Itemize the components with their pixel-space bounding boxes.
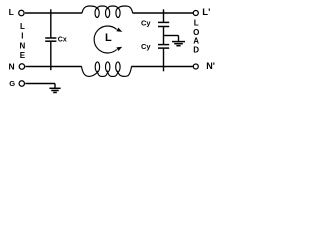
svg-text:Cy: Cy <box>141 42 151 51</box>
svg-text:L': L' <box>202 7 210 18</box>
svg-text:L: L <box>20 22 25 31</box>
svg-text:D: D <box>193 46 199 55</box>
svg-text:N': N' <box>206 61 215 71</box>
svg-text:L: L <box>105 32 112 44</box>
svg-text:N: N <box>9 61 15 71</box>
svg-text:L: L <box>194 18 199 27</box>
svg-text:O: O <box>193 28 199 37</box>
svg-text:A: A <box>193 37 199 46</box>
svg-text:L: L <box>9 7 14 17</box>
svg-text:N: N <box>20 41 26 50</box>
svg-text:E: E <box>20 51 26 60</box>
svg-text:Cx: Cx <box>58 37 67 44</box>
svg-text:Cy: Cy <box>141 19 151 28</box>
svg-text:G: G <box>9 79 15 88</box>
svg-text:I: I <box>21 32 23 41</box>
